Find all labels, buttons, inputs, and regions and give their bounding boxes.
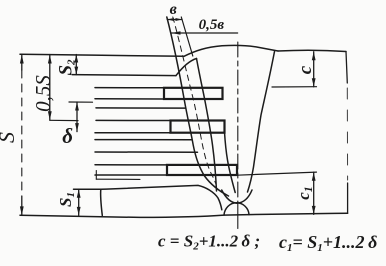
c1 arrows [312,172,316,181]
svg-text:c: c [295,65,316,74]
weld root boundary from bar B2 [225,132,236,193]
c arrows [312,52,316,61]
sheet line L4 [95,98,164,100]
svg-text:S2: S2 [56,59,78,76]
S2 arrows [74,55,78,63]
pack top corner curve into groove [176,59,197,76]
extension line for b dimension (right) [181,17,193,56]
svg-text:0,5в: 0,5в [199,17,225,33]
groove band right edge B [197,59,217,192]
S2 dimension line [75,55,77,75]
right edge of right plate [346,52,347,84]
S arrows [20,55,24,64]
S dimension line [21,55,23,71]
small vertical tick at pack edge [95,171,97,180]
sheet line L5 [96,107,186,109]
c dimension line [313,52,315,87]
sheet line L3 [95,87,164,89]
short sheet line L12 [96,178,140,180]
c extension line [272,86,317,88]
sheet line L11 [95,174,167,176]
svg-text:S: S [0,132,19,143]
delta top extension [69,101,93,103]
svg-text:c = S2+1...2 δ ;: c = S2+1...2 δ ; [158,232,260,253]
svg-text:S1: S1 [56,192,77,207]
root bead dome [224,203,249,215]
weld cap reinforcement curve [184,45,278,56]
sheet line L10 [95,164,167,166]
sheet line L9 [95,151,198,153]
sheet line L2 [72,75,176,76]
weld centerline (dashed axis) [237,42,239,202]
sheet line L6 [96,119,171,121]
protruding sheet bar B3 [167,165,237,175]
root U-curve [222,190,252,203]
groove left wall A [167,17,229,196]
top surface of laminated pack [20,54,184,56]
0,5b dimension line [172,32,238,34]
right groove bevel wall [248,52,275,193]
protruding sheet bar B2 [171,121,225,133]
S1 dimension line [78,189,80,215]
c1 extension line [237,172,317,175]
svg-text:δ: δ [62,124,73,148]
top surface of right plate [278,50,346,51]
b dimension line [167,19,182,21]
electrode axis (dashed) [173,17,216,184]
S1 arrows [77,189,81,198]
svg-text:0,5S: 0,5S [31,75,55,112]
bottom surface line [20,213,348,217]
sheet line L8 [95,139,192,141]
protruding sheet bar B1 [164,88,223,99]
bottom plate top edge, curving into root [74,185,222,209]
b arrows [167,18,174,21]
sheet line L7 [95,132,171,134]
delta dimension line [76,102,78,132]
svg-text:c1= S1+1...2 δ: c1= S1+1...2 δ [279,232,377,254]
c1 dimension line [313,172,315,214]
0,5b arrow [172,31,181,35]
0,5S arrows [48,55,52,64]
bottom plate left edge [101,189,103,215]
svg-text:в: в [170,1,177,18]
extension segment at half-S level [50,119,78,121]
delta arrows [75,102,79,111]
svg-text:c1: c1 [294,186,315,200]
0,5S dimension line [49,55,51,121]
